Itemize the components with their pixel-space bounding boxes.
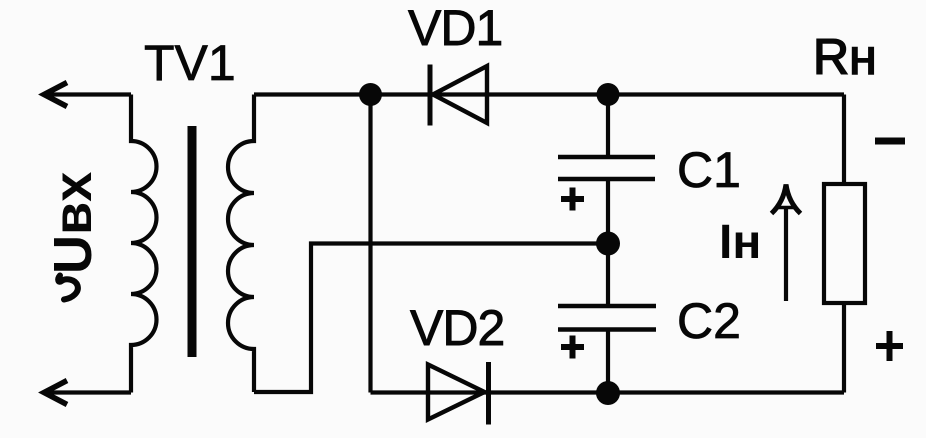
- arrow bottom-left: [44, 381, 67, 405]
- plus sign of C2: [561, 336, 584, 359]
- svg-text:VD2: VD2: [410, 300, 504, 356]
- wire from top node down to bottom rail: [368, 95, 372, 393]
- capacitor C1 wire from top node: [606, 95, 610, 158]
- node D junction dot: [596, 381, 620, 405]
- diode VD2 triangle: [428, 365, 485, 420]
- svg-text:C1: C1: [677, 142, 741, 198]
- plus sign at load: [876, 331, 903, 361]
- capacitor C2 wire from mid node: [606, 244, 610, 307]
- wire bottom-left primary lead: [47, 390, 131, 394]
- node C junction dot (midpoint): [596, 232, 620, 256]
- svg-text:TV1: TV1: [144, 35, 236, 91]
- diode VD2 cathode bar: [486, 362, 491, 425]
- wire right side top: [842, 95, 846, 185]
- wire secondary bottom to midpoint node: [254, 244, 607, 393]
- transformer TV1 primary winding: [131, 95, 157, 393]
- capacitor C1 plates: [558, 155, 655, 160]
- resistor Rn body: [824, 184, 865, 303]
- svg-text:Uвх: Uвх: [43, 172, 103, 274]
- svg-text:C2: C2: [677, 293, 741, 349]
- arrow top-left: [44, 83, 67, 107]
- capacitor C2 plates: [558, 304, 656, 309]
- transformer TV1 core: [188, 126, 197, 357]
- transformer TV1 secondary winding: [228, 95, 254, 393]
- AC sine symbol of Uvx: [58, 276, 78, 300]
- wire bottom rail: [371, 390, 845, 394]
- capacitor C2 wire to bottom node: [606, 330, 610, 394]
- svg-text:VD1: VD1: [408, 0, 502, 56]
- capacitor C1 wire to mid node: [606, 179, 610, 244]
- minus sign at load: [875, 138, 905, 145]
- current In arrow shaft: [784, 206, 788, 301]
- node A junction dot: [359, 83, 382, 106]
- wire top-left primary lead: [47, 92, 131, 96]
- node B junction dot: [597, 83, 620, 106]
- wire top rail: [254, 92, 844, 96]
- wire right side bottom: [842, 303, 846, 393]
- diode VD1 cathode bar: [428, 65, 433, 126]
- svg-text:Iн: Iн: [719, 216, 761, 269]
- plus sign of C1: [561, 188, 584, 211]
- current In arrowhead: [772, 185, 801, 214]
- diode VD1 triangle: [433, 66, 487, 123]
- svg-text:Rн: Rн: [813, 29, 877, 85]
